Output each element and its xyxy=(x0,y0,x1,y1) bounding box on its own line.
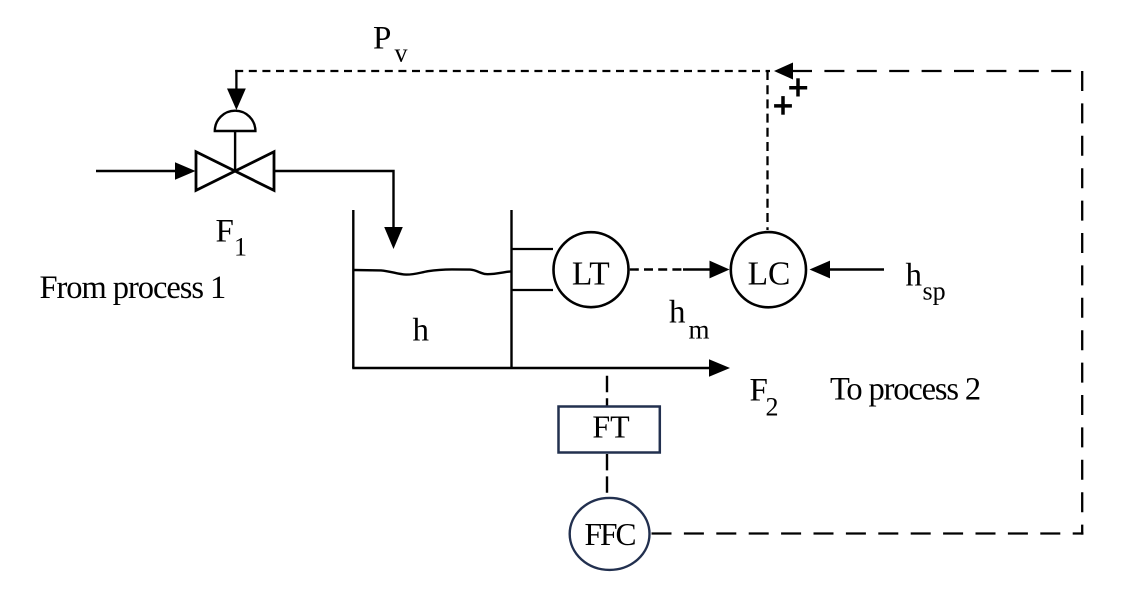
valve stem xyxy=(234,131,236,171)
svg-text:h: h xyxy=(413,313,430,349)
valve actuator dome xyxy=(215,111,256,131)
feedforward signal long-dash bottom xyxy=(652,532,1084,534)
tank left wall xyxy=(352,210,354,368)
label hm xyxy=(669,295,710,345)
svg-text:h: h xyxy=(906,258,923,294)
svg-text:LC: LC xyxy=(748,255,791,292)
svg-text:m: m xyxy=(689,315,710,345)
wire Pv dashed horizontal xyxy=(235,70,770,72)
dashed line outflow to FT xyxy=(606,376,608,406)
svg-text:h: h xyxy=(669,295,686,331)
LC output dashed vertical to summing junction xyxy=(766,71,768,230)
flow transmitter FT xyxy=(559,407,660,453)
svg-text:2: 2 xyxy=(766,393,779,422)
svg-text:From process 1: From process 1 xyxy=(40,270,226,306)
svg-text:FT: FT xyxy=(592,409,630,445)
arrow into valve xyxy=(175,162,196,179)
svg-text:1: 1 xyxy=(234,233,247,262)
setpoint line hsp xyxy=(829,268,884,270)
level transmitter LT xyxy=(554,232,629,307)
svg-text:To process 2: To process 2 xyxy=(830,372,980,408)
svg-text:P: P xyxy=(373,21,391,57)
level controller LC xyxy=(731,232,806,307)
svg-text:v: v xyxy=(395,39,408,68)
arrow F2 outflow xyxy=(709,359,730,376)
label Pv xyxy=(373,21,408,68)
tank bottom and outflow line F2 xyxy=(352,367,710,369)
LT tap lower xyxy=(512,289,554,291)
signal hm dashed LT to LC xyxy=(630,268,712,270)
inlet line from process 1 xyxy=(96,170,178,172)
feedforward signal long-dash top xyxy=(792,70,1083,72)
svg-text:sp: sp xyxy=(923,277,946,306)
plus sign lower xyxy=(774,96,792,115)
control valve body xyxy=(196,152,274,191)
tank right wall xyxy=(510,210,512,368)
liquid surface wavy line xyxy=(353,269,511,274)
arrow into LC from LT xyxy=(710,261,730,279)
LT tap upper xyxy=(512,248,554,250)
feedforward controller FFC xyxy=(570,498,650,570)
label F1 xyxy=(216,214,248,262)
arrow into valve actuator xyxy=(227,89,246,111)
plus sign upper xyxy=(789,78,807,96)
wire Pv corner vertical xyxy=(235,70,237,93)
arrow hsp into LC xyxy=(810,261,831,279)
label F2 xyxy=(750,373,779,422)
arrow into summing junction xyxy=(774,63,793,80)
wire valve outlet to tank xyxy=(274,171,394,229)
feedforward signal long-dash right vertical xyxy=(1081,71,1083,535)
label hsp xyxy=(906,258,946,306)
svg-text:F: F xyxy=(216,214,234,250)
svg-text:LT: LT xyxy=(572,255,610,292)
svg-text:FFC: FFC xyxy=(584,517,635,552)
dashed line FT to FFC xyxy=(606,454,608,497)
arrow into tank xyxy=(384,227,403,249)
